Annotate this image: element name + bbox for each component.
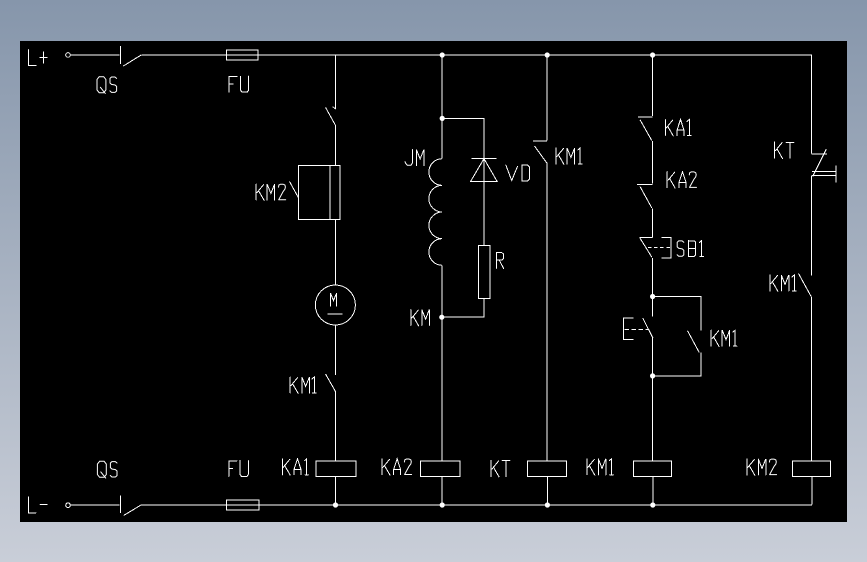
wire KM1 contact to KA1 coil [334,391,336,461]
label KA2 contact [667,172,686,188]
contact KM1 branch5 blade [799,274,812,297]
wire KM node to KA2 coil [441,317,443,461]
wire KM1 contact to KM2 coil [811,296,813,461]
label KM1 coil [587,459,613,475]
contact branch1 top blade [326,108,336,125]
contact KA2 blade [640,187,652,208]
wire top bus [141,54,811,56]
button SB1 link dashes [648,247,670,249]
label M motor [331,293,337,306]
contact E actuator bracket [623,318,633,339]
label KM2 brake [256,184,274,200]
junction dot node KM [439,315,444,320]
wire L- lead [71,504,120,506]
contact KT tick [812,153,827,155]
coil KT [528,461,567,477]
wire JM coil to KM node [441,265,443,317]
fuse FU top [226,50,258,60]
wire KA2 to SB1 [652,209,654,238]
coil KM2 [793,461,831,477]
wire L+ lead [71,54,120,56]
wire KM1 coil to bus [652,477,654,505]
wire KA1 to KA2 contact [652,141,654,183]
junction dot top branch2 [440,52,445,57]
label KM1 parallel [711,330,737,346]
label KM1 branch5 [770,275,796,291]
wire branch2 to coil JM [441,118,443,158]
wire branch3 to KT coil [546,163,548,461]
wire bottom bus [141,504,812,506]
contact E link dashes [624,328,648,330]
resistor R [478,246,490,299]
contact branch1 top tick [333,107,336,110]
wire diode branch top link [442,118,484,158]
junction dot top branch3 [545,52,550,57]
label L- [28,497,47,513]
wire KT contact to KM1 contact [811,176,813,276]
wire branch2 top drop [441,55,443,119]
button SB1 actuator bracket [662,237,671,258]
wire KA1 coil to bus [335,477,337,505]
wire KA2 coil to bus [441,477,443,505]
junction dot bottom branch4 [650,502,655,507]
wire branch4 top drop [652,55,654,116]
wire parallel KM1 bottom link [653,353,701,376]
label KM1 branch1 [290,377,316,393]
contact KM1 parallel blade [688,331,700,353]
wire E contact to node B [652,338,654,376]
coil KA1 [316,461,356,477]
contact KA2 tick [637,183,653,185]
diode VD triangle [471,159,498,182]
label KA1 coil [282,459,308,475]
wire SB1 to node A [652,258,654,297]
label VD [506,165,530,181]
wire KT coil to bus [546,477,548,505]
switch QS top blade [123,55,141,66]
label KT coil [491,461,510,477]
wire branch3 top drop [546,55,548,141]
label KM1 branch3 [556,148,582,164]
wire KM2 box to motor [334,220,336,286]
brake KM2 box [299,166,340,220]
motor M dc bar [327,313,342,315]
fuse FU bottom [226,500,258,510]
contact KA1 tick [638,116,652,118]
wire node B to KM1 coil [652,376,654,461]
label QS bottom [97,461,117,478]
contact KA1 blade [640,120,652,141]
wire node A to E contact [652,297,654,317]
label KA2 coil [382,459,401,475]
junction dot top branch4 [650,52,655,57]
diode VD cathode bar [472,157,497,159]
wire branch1 to KM2 box [334,125,336,166]
label KT contact [775,142,794,158]
label R [496,253,503,269]
contact KT delay bar lower [812,175,836,177]
wire branch5 top drop [811,55,813,154]
junction dot diode split [440,116,445,121]
wire KM2 coil to bus corner [811,477,813,505]
wire diode to resistor [483,158,485,245]
coil KA2 [421,461,460,477]
contact KM1 branch3 blade [535,146,547,163]
label KM2 coil [747,459,766,475]
switch QS bottom fixed bar [119,495,121,513]
label KA1 contact [665,120,691,136]
junction dot bottom branch3 [545,502,550,507]
node L+ terminal circle [66,53,71,58]
contact KT blade [813,149,827,176]
label KM node [411,310,430,326]
motor M circle [315,285,355,325]
label FU bottom [229,461,249,477]
label QS top [97,77,117,94]
junction dot bottom branch2 [440,502,445,507]
label SB1 [688,241,703,257]
wire parallel KM1 top link [653,297,701,331]
label FU top [229,76,249,92]
junction dot bottom branch1 [333,502,338,507]
label JM [416,150,424,166]
button SB1 blade [640,238,652,257]
node L- terminal circle [66,503,71,508]
contact KM1 branch3 tick [533,140,547,142]
junction dot node A [650,294,655,299]
coil KM1 [634,461,672,477]
contact KM1 branch1 blade [326,374,336,391]
switch QS bottom blade [124,505,142,516]
junction dot node B [650,373,655,378]
brake KM2 box divider [329,166,331,220]
wire resistor to KM node [442,299,484,318]
inductor JM coil [429,159,442,266]
button SB1 tick [640,236,653,238]
switch QS top fixed bar [120,46,122,64]
contact KT delay end bar [835,166,837,183]
wire branch1 top drop [334,55,336,109]
contact E blade [643,318,653,338]
brake KM2 blade [290,182,299,199]
label L+ [28,50,47,66]
contact KT delay bar upper [812,170,836,172]
wire motor to KM1 contact [334,325,336,375]
